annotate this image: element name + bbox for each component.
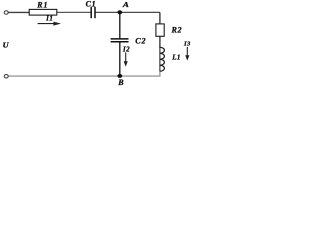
capacitor C1 xyxy=(91,7,95,18)
current arrow I3 xyxy=(185,47,189,61)
wire: C2 down to node B xyxy=(119,42,121,76)
svg-text:R1: R1 xyxy=(36,0,48,9)
wire: R1 to C1 xyxy=(57,11,91,13)
svg-text:I1: I1 xyxy=(45,14,53,22)
resistor R2 xyxy=(156,24,164,36)
svg-text:I3: I3 xyxy=(183,41,191,48)
wire: C1 to top-right corner xyxy=(95,11,160,13)
wire: R2 to L1 xyxy=(159,36,161,48)
wire: L1 to bottom-right corner xyxy=(9,71,160,76)
terminal (input, bottom-left) xyxy=(4,74,8,78)
terminal (input, top-left) xyxy=(4,11,8,15)
wire top-left: terminal to R1 xyxy=(8,11,29,13)
svg-text:B: B xyxy=(117,78,124,87)
wire: node A down to C2 xyxy=(119,12,121,38)
svg-text:A: A xyxy=(122,0,129,9)
inductor L1 xyxy=(160,47,165,71)
svg-text:C1: C1 xyxy=(86,0,97,8)
current arrow I1 xyxy=(38,22,61,26)
node A xyxy=(117,10,122,14)
current arrow I2 xyxy=(124,52,128,66)
svg-text:L1: L1 xyxy=(171,54,181,62)
wire: right branch vertical top (corner to R2) xyxy=(159,12,161,24)
capacitor C2 xyxy=(111,39,129,42)
svg-text:C2: C2 xyxy=(135,36,146,45)
svg-text:U: U xyxy=(3,41,10,50)
node B xyxy=(117,74,122,78)
svg-text:I2: I2 xyxy=(122,45,130,53)
resistor R1 xyxy=(29,9,57,15)
svg-text:R2: R2 xyxy=(171,26,183,35)
